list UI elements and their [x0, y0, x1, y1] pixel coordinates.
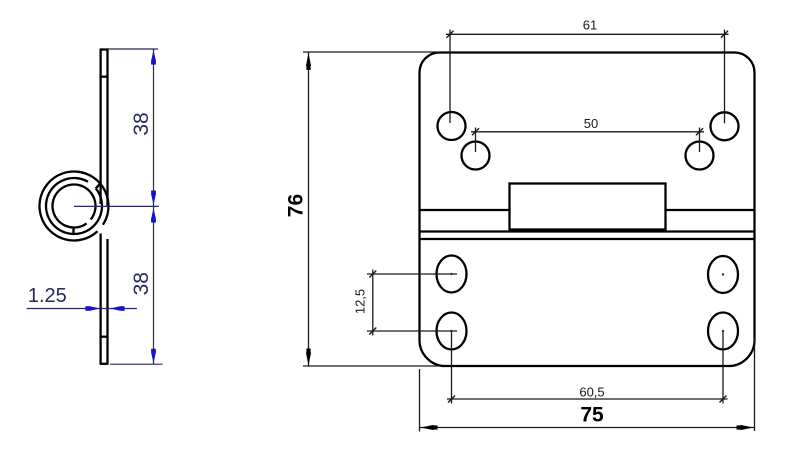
upper leaf right edge	[106, 50, 108, 207]
slot bottom-right lower	[708, 313, 738, 350]
svg-text:75: 75	[580, 403, 604, 426]
svg-text:60,5: 60,5	[579, 385, 604, 400]
svg-text:38: 38	[130, 112, 153, 135]
tick 61 right	[721, 31, 728, 38]
61 extension right into hole	[724, 30, 726, 124]
lower leaf seam tick	[101, 336, 108, 338]
barrel line right segment	[666, 209, 754, 211]
coil centerline	[74, 205, 159, 207]
coil middle sheet end cap	[96, 184, 100, 188]
knuckle rectangle	[510, 184, 666, 230]
60,5 extension left	[451, 331, 453, 404]
60,5 extension right	[722, 331, 724, 404]
12,5 extension upper	[367, 273, 457, 275]
hole top-left outer	[438, 112, 466, 140]
plate outline rounded	[420, 53, 755, 367]
svg-text:38: 38	[130, 272, 153, 295]
extension line bottom	[110, 363, 163, 365]
dim line 60,5	[447, 398, 728, 400]
slot bottom-left upper	[437, 256, 467, 293]
coil outer circle	[39, 172, 108, 241]
blue dimension arrows	[85, 50, 156, 363]
coil inner circle arc	[53, 184, 96, 227]
tick 50 left	[472, 128, 479, 135]
arrow 76 top	[306, 53, 311, 66]
svg-text:76: 76	[285, 194, 308, 217]
arrow up at top of 38	[151, 50, 155, 60]
lower leaf right edge	[106, 239, 108, 364]
61 extension left into hole	[449, 30, 451, 124]
upper leaf top cap	[100, 48, 109, 50]
hole top-left inner	[462, 142, 490, 170]
arrow 75 right	[741, 425, 754, 430]
center dot slot BL lower	[450, 330, 452, 332]
slot bottom-right upper	[708, 256, 738, 293]
center dot slot BL upper	[450, 273, 452, 275]
svg-text:50: 50	[584, 116, 598, 131]
right view dimension texts	[353, 18, 605, 400]
75 extension left	[419, 369, 421, 432]
leader arrow pointing right at plate left face	[90, 306, 100, 310]
arrow down at bottom of 38	[151, 353, 155, 363]
50 extension right into hole	[699, 128, 701, 153]
coil inner sheet end cap	[72, 228, 74, 235]
left view dimension lines (navy)	[27, 49, 163, 364]
dimension line 38+38	[153, 49, 155, 364]
tick 60,5 right	[720, 396, 727, 403]
tick 60,5 left	[448, 396, 455, 403]
arrow down at coil center (upper 38)	[151, 195, 155, 205]
slash tick marks	[369, 31, 728, 403]
hole center dots	[450, 273, 724, 332]
arrow up at coil center (lower 38)	[151, 208, 155, 218]
svg-text:61: 61	[583, 18, 597, 33]
extension line top	[108, 48, 158, 50]
arrow 75 left	[421, 425, 434, 430]
lower leaf top edge	[421, 238, 754, 240]
12,5 extension lower	[367, 330, 457, 332]
left view dimension texts	[28, 112, 153, 307]
dim line 12,5	[372, 270, 374, 336]
leader line 1.25	[27, 308, 137, 310]
upper leaf left edge	[99, 50, 101, 205]
center dot slot BR upper	[722, 273, 724, 275]
50 extension left into hole	[475, 128, 477, 153]
center dot slot BR lower	[722, 330, 724, 332]
svg-text:1.25: 1.25	[28, 285, 67, 307]
dim line 50	[471, 131, 704, 133]
tick 61 left	[447, 31, 454, 38]
slot bottom-left lower	[437, 313, 467, 350]
dim line 75	[420, 427, 755, 429]
dim line 76	[308, 52, 310, 366]
75 extension right	[754, 337, 756, 431]
tick 50 right	[696, 128, 703, 135]
76 extension top	[303, 51, 438, 53]
lower leaf left edge	[99, 234, 101, 364]
barrel line left segment	[421, 209, 510, 211]
svg-text:12,5: 12,5	[353, 289, 368, 314]
hole top-right inner	[686, 142, 714, 170]
leader arrow pointing left at plate right face	[110, 306, 120, 310]
black filled arrows for 75 and 76	[306, 53, 754, 430]
lower leaf bottom cap	[100, 363, 109, 365]
upper leaf seam tick	[101, 76, 108, 78]
upper leaf bottom edge	[421, 230, 754, 232]
dim line 61	[446, 33, 729, 35]
coil middle circle arc	[46, 178, 102, 234]
76 extension bottom	[303, 365, 440, 367]
arrow 76 bottom	[306, 353, 311, 366]
tick 12,5 top	[369, 271, 376, 278]
right view dimension lines (black thin)	[303, 30, 755, 432]
hole top-right outer	[711, 112, 739, 140]
tick 12,5 bottom	[369, 328, 376, 335]
